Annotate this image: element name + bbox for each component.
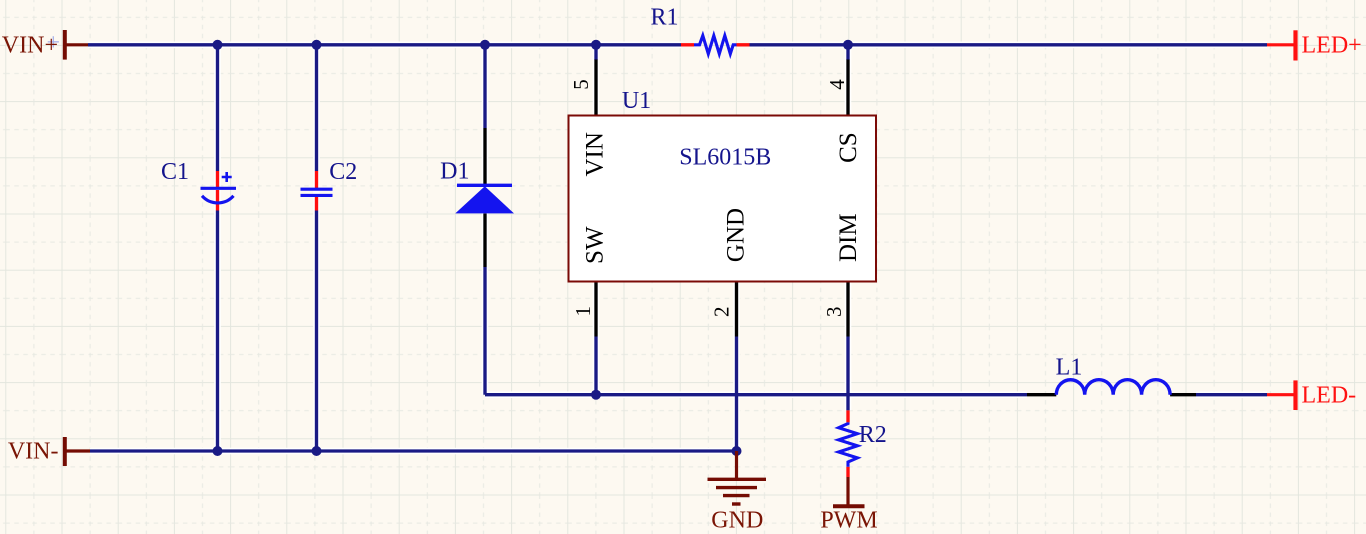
svg-text:LED+: LED+ <box>1302 32 1362 58</box>
svg-text:VIN+: VIN+ <box>2 32 58 58</box>
svg-text:2: 2 <box>710 307 734 318</box>
svg-text:CS: CS <box>835 132 862 163</box>
svg-text:5: 5 <box>569 79 593 90</box>
svg-text:VIN-: VIN- <box>8 439 59 465</box>
svg-text:DIM: DIM <box>835 213 862 262</box>
svg-text:C2: C2 <box>329 159 357 185</box>
svg-text:3: 3 <box>822 307 846 318</box>
svg-text:D1: D1 <box>440 158 469 184</box>
svg-text:4: 4 <box>825 79 849 90</box>
svg-text:VIN: VIN <box>582 132 609 176</box>
svg-text:C1: C1 <box>161 159 189 185</box>
svg-text:LED-: LED- <box>1302 382 1357 408</box>
svg-text:U1: U1 <box>622 88 651 114</box>
svg-text:1: 1 <box>571 306 595 317</box>
svg-text:SL6015B: SL6015B <box>679 144 771 170</box>
svg-text:GND: GND <box>711 507 763 533</box>
svg-text:PWM: PWM <box>820 507 877 533</box>
svg-text:R2: R2 <box>859 422 887 448</box>
svg-text:R1: R1 <box>650 4 678 30</box>
svg-text:L1: L1 <box>1056 355 1083 381</box>
svg-text:SW: SW <box>582 226 609 264</box>
svg-text:GND: GND <box>723 208 750 262</box>
